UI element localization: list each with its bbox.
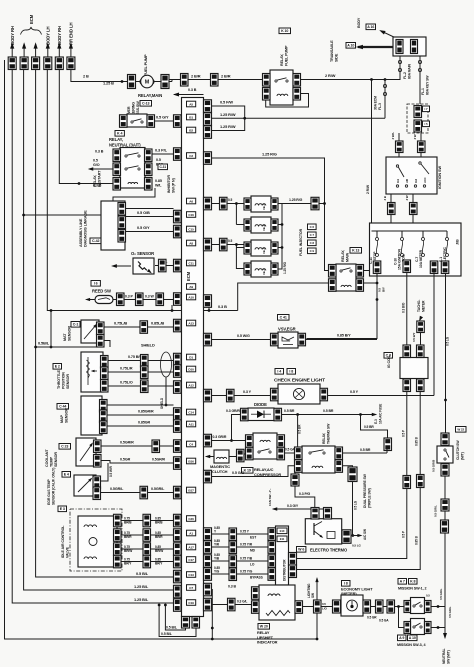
A16 label	[366, 24, 376, 30]
ECM right edge connector y158	[204, 152, 212, 165]
J/B label	[456, 239, 460, 245]
svg-text:0.85 B: 0.85 B	[415, 535, 419, 545]
relay neutral conn L1	[113, 149, 121, 162]
battery feed arrow	[356, 45, 393, 50]
MAT row1 mid connector	[140, 321, 148, 334]
relay main arrow label	[138, 88, 204, 98]
relay AC conn L2	[246, 447, 254, 460]
wire from harness 6 to fuel pump	[71, 70, 128, 82]
label 2 B	[83, 74, 89, 79]
reed sw name	[92, 289, 111, 294]
IG coil conn B1	[403, 379, 411, 392]
relay neutral K4 label	[115, 131, 124, 137]
relay fp conn R2	[293, 88, 301, 101]
MAP sensor labels	[57, 404, 69, 424]
ECM bottom loop a	[164, 604, 186, 630]
distributor row conn EST	[229, 528, 237, 541]
magnetic clutch conn	[237, 449, 245, 462]
connector on 2B/R wire b	[211, 74, 219, 87]
wire 0.3 Y	[212, 390, 271, 396]
svg-text:EST: EST	[250, 535, 256, 539]
wire 0.5 W/G	[212, 334, 271, 340]
idle air mid conn row2	[143, 529, 151, 542]
FL-2 80A MAIN	[385, 56, 412, 80]
wire MAP row2 0.85GR/R	[107, 410, 174, 416]
power steering sw connector right	[147, 115, 155, 128]
distributor row LO	[212, 553, 269, 567]
svg-text:I 5: I 5	[425, 122, 428, 126]
svg-text:(M/T): (M/T)	[461, 452, 465, 460]
body label	[357, 17, 361, 28]
transaxle side label	[330, 40, 339, 62]
svg-text:A 10: A 10	[409, 636, 416, 640]
coolant conn R2	[94, 455, 102, 468]
svg-text:INHIBITOR: INHIBITOR	[167, 175, 171, 193]
relay main conn R1	[356, 265, 364, 278]
wire idle air row1	[121, 516, 174, 524]
relay AC compressor box	[253, 433, 277, 459]
svg-text:0.5 BR: 0.5 BR	[298, 424, 302, 434]
VSV conn R	[298, 333, 306, 346]
svg-text:0.5 GR: 0.5 GR	[367, 616, 377, 620]
relay thermo conn R2	[335, 460, 343, 473]
injector No.1 conn L	[244, 198, 251, 210]
svg-text:C26: C26	[188, 517, 194, 521]
wire throttle row3	[108, 381, 174, 387]
IG coil conn T2	[417, 345, 425, 358]
svg-text:RELAY,: RELAY,	[322, 432, 326, 444]
injector No.4 conn L	[244, 263, 251, 275]
label 0.5GR/L b	[151, 487, 165, 491]
idle air mid conn row3	[143, 543, 151, 556]
reed conn c	[156, 293, 164, 306]
fuse 15A IGNITION COIL	[394, 238, 406, 271]
throttle sensor box	[81, 352, 103, 392]
svg-text:0.3 G/Y: 0.3 G/Y	[287, 504, 299, 508]
svg-text:0.75L/B: 0.75L/B	[114, 321, 127, 326]
svg-text:C-13: C-13	[142, 102, 149, 106]
wire linkage row1	[126, 208, 174, 210]
wire K12 to feed riser	[319, 202, 326, 205]
svg-text:BR/W: BR/W	[155, 549, 163, 553]
ECM right edge connector y119	[204, 113, 212, 126]
wire 0.5 Y	[328, 390, 435, 396]
svg-text:0.5 G/Y: 0.5 G/Y	[137, 225, 150, 230]
label 0.85 W/L	[155, 179, 162, 188]
MAP conn R3	[100, 421, 108, 434]
svg-text:BR/Y: BR/Y	[155, 562, 163, 566]
relay neutral conn R3	[145, 178, 153, 191]
svg-text:W 20: W 20	[260, 625, 268, 629]
ECM right edge connector y244.5	[204, 238, 212, 251]
svg-text:0.5 G/Y: 0.5 G/Y	[156, 115, 169, 120]
relay AC conn R1	[277, 435, 285, 448]
mission sw 1 box	[411, 598, 425, 614]
IG coil conn T1	[403, 345, 411, 358]
ECM left edge connector y216.5	[174, 210, 182, 223]
svg-text:VALVE: VALVE	[66, 546, 70, 558]
svg-text:C16: C16	[188, 213, 194, 217]
svg-text:2 R/W: 2 R/W	[325, 73, 336, 78]
electric fuse wire	[444, 274, 449, 434]
svg-text:0.5 P: 0.5 P	[402, 530, 406, 538]
key sw conn 1	[414, 106, 430, 118]
svg-text:A 7: A 7	[400, 580, 405, 584]
diode label	[254, 402, 267, 407]
ECM left edge connector y561.5	[174, 555, 182, 568]
EGR temp sensor labels	[47, 468, 71, 505]
relay upshift labels	[257, 624, 278, 645]
EGR temp sensor box	[74, 475, 96, 496]
svg-text:1.25 R/G: 1.25 R/G	[283, 261, 287, 274]
svg-text:1.25 R/W: 1.25 R/W	[220, 112, 236, 117]
idle air control outer box	[70, 509, 122, 571]
svg-text:SENSOR: SENSOR	[66, 374, 70, 389]
svg-text:ECM: ECM	[29, 14, 34, 24]
wire 2 R/W to fuse box	[366, 80, 372, 224]
svg-text:0.5 GR/B: 0.5 GR/B	[432, 459, 436, 472]
EGR row2 mid conn	[140, 486, 148, 499]
relay thermo conn L1	[295, 447, 303, 460]
svg-text:0.75L/R: 0.75L/R	[120, 367, 133, 371]
svg-text:0.3 B: 0.3 B	[218, 304, 227, 309]
injector return bus	[278, 204, 287, 275]
svg-text:3 W: 3 W	[405, 195, 409, 200]
fuse box bottom conn 2	[403, 260, 411, 273]
svg-text:0.5 GR/L: 0.5 GR/L	[439, 588, 443, 600]
svg-text:CLUTCH SW: CLUTCH SW	[456, 440, 460, 460]
fuel injector label column	[299, 224, 316, 256]
check engine mid conn	[227, 389, 235, 402]
fuel pump connector left	[128, 75, 136, 89]
svg-text:FL-2: FL-2	[403, 72, 407, 79]
injector mid conn 1	[220, 197, 228, 210]
svg-text:0.5 W/R: 0.5 W/R	[109, 465, 113, 477]
wire clutch to relay	[229, 454, 245, 457]
C9 connector	[291, 472, 299, 487]
svg-text:0.5 W/G: 0.5 W/G	[237, 334, 250, 338]
svg-text:BODY: BODY	[357, 17, 361, 28]
electro thermo conn T1	[311, 508, 319, 520]
svg-text:0.5: 0.5	[228, 198, 232, 202]
wire 15A stop down	[307, 274, 386, 339]
svg-text:K 8: K 8	[410, 580, 415, 584]
wire idle air row4	[121, 557, 174, 565]
magnetic clutch box	[214, 450, 229, 463]
svg-text:0.3 P/G: 0.3 P/G	[299, 492, 311, 496]
svg-text:C19: C19	[188, 601, 194, 605]
svg-text:MISSION SW‑3, 4: MISSION SW‑3, 4	[397, 643, 426, 647]
distributor row BYPASS	[212, 566, 269, 580]
ECM left edge connector y371	[174, 365, 182, 378]
wire2 branch to diagnosis linkage	[22, 214, 101, 217]
upshift conn L2	[252, 601, 260, 614]
reed switch	[95, 296, 113, 304]
svg-text:0.3 B: 0.3 B	[93, 184, 102, 188]
neutral sw wire	[439, 588, 452, 664]
svg-text:C 9: C 9	[310, 249, 315, 253]
FL-3 30A ECM	[374, 80, 387, 119]
svg-text:K 19: K 19	[244, 469, 251, 473]
label 2 B/R a	[191, 74, 201, 79]
shield drain wire	[160, 377, 167, 409]
svg-text:G/O: G/O	[93, 163, 100, 167]
shield label	[141, 343, 155, 348]
reed sw ground stub	[85, 298, 95, 301]
wire ECM to relay AC	[212, 440, 246, 442]
svg-text:C2: C2	[189, 154, 193, 158]
economy light meter box	[341, 595, 363, 616]
wire 0.3 P/L	[152, 148, 174, 155]
svg-text:0.75 Y/R: 0.75 Y/R	[240, 542, 253, 546]
connector on harness wire 3	[32, 57, 40, 70]
svg-text:W 22: W 22	[457, 428, 464, 432]
ignition wire mid connector 2	[417, 475, 425, 488]
label 0.5 B/W	[156, 158, 163, 167]
svg-text:1.25 B/L: 1.25 B/L	[134, 584, 149, 589]
label 0.5 B/L row	[136, 571, 149, 576]
relay fp conn L1	[263, 74, 271, 87]
reed sw I6 label	[91, 281, 100, 287]
relay fp conn L2	[263, 88, 271, 101]
wire MAT row2 to ground	[104, 341, 110, 348]
svg-text:ELECTRO THERMO: ELECTRO THERMO	[310, 548, 348, 553]
MAT conn R2	[97, 335, 105, 348]
ECM right edge connector y106	[204, 100, 212, 113]
O2 mid connector	[159, 259, 167, 272]
ECM right edge connector y547	[204, 541, 212, 554]
injector feed split 2	[235, 243, 244, 268]
svg-text:D10: D10	[188, 367, 194, 371]
svg-text:0.75 Y: 0.75 Y	[240, 529, 250, 533]
MAT conn R1	[97, 322, 105, 335]
dual pressure conn	[348, 467, 357, 482]
wire idle air row2	[121, 531, 174, 539]
relay thermo box	[302, 446, 335, 473]
wire MAT row1 0.75L/B	[104, 321, 174, 328]
svg-text:0.5GR: 0.5GR	[120, 458, 131, 462]
fuse 15A STOP	[369, 238, 379, 268]
wire 2 R/W	[301, 73, 387, 81]
svg-text:I 8: I 8	[344, 582, 348, 586]
svg-text:DIODE: DIODE	[254, 402, 267, 407]
svg-text:MAT: MAT	[63, 333, 67, 341]
fuel injector No.2 box	[251, 217, 271, 233]
ECM left edge connector y535	[174, 529, 182, 542]
distributor edge conn EST	[268, 528, 276, 541]
wire 0.5 BR diode out	[282, 409, 376, 416]
svg-text:E11: E11	[280, 537, 285, 541]
ignition sw box	[386, 157, 437, 194]
wire ECM to upshift relay	[212, 604, 252, 606]
idle air control inner box	[78, 516, 117, 567]
AC fuse branch	[361, 415, 392, 451]
ECM left edge connector y121	[174, 115, 182, 128]
O2 sensor box	[133, 258, 154, 275]
relay fuel pump box	[270, 70, 293, 105]
mission sw2 conn L	[404, 622, 411, 634]
label 0.5GR/R top	[152, 458, 165, 462]
svg-text:I 7: I 7	[425, 107, 428, 111]
svg-text:MISSION SW‑1, 2: MISSION SW‑1, 2	[398, 587, 426, 591]
ECM bottom connector a	[182, 617, 190, 629]
fuel pump label	[143, 54, 148, 76]
svg-text:TRANSAXLE: TRANSAXLE	[330, 40, 334, 62]
wire VSV right	[306, 339, 378, 341]
body branch arrow	[378, 28, 397, 38]
injector No.3 conn R	[271, 242, 278, 254]
svg-text:0.5 BR: 0.5 BR	[284, 409, 295, 413]
svg-text:SENSOR (CALIF. ONLY): SENSOR (CALIF. ONLY)	[52, 468, 56, 505]
svg-text:A 9: A 9	[399, 636, 404, 640]
upshift conn R1	[295, 601, 303, 614]
svg-text:0.5 O/B: 0.5 O/B	[137, 210, 150, 215]
throttle row3 mid conn	[141, 380, 149, 393]
wire 0.3 G/Y fan	[268, 488, 328, 518]
ECM left edge connector y605	[174, 599, 182, 612]
label 0.5 B/L b	[161, 632, 173, 636]
relay neutral conn L3	[113, 178, 121, 191]
svg-text:0.5 B/L: 0.5 B/L	[166, 626, 178, 630]
relay AC coil branch	[285, 415, 302, 454]
svg-text:A1: A1	[189, 531, 193, 535]
svg-text:2 R/W: 2 R/W	[366, 184, 370, 194]
wire ign coil down 0.3B/O	[402, 273, 407, 346]
ECM left edge connector y231.5	[174, 225, 182, 238]
idle air control labels	[58, 506, 70, 558]
svg-text:MAIN: MAIN	[346, 253, 350, 262]
svg-text:SHIELD: SHIELD	[141, 343, 155, 348]
ECM bottom loop b	[158, 604, 196, 637]
ECM left edge connector y265.5	[174, 259, 182, 272]
svg-text:TACHO-: TACHO-	[417, 300, 421, 312]
linkage conn R3	[118, 230, 126, 243]
svg-text:A8: A8	[189, 241, 193, 245]
svg-text:2 B/R: 2 B/R	[191, 74, 201, 79]
svg-text:BODY RH: BODY RH	[57, 26, 62, 45]
FL-1 80A KEY SW	[418, 56, 429, 104]
throttle row1 mid conn	[141, 355, 149, 368]
svg-text:A11: A11	[188, 422, 194, 426]
svg-text:Y/R: Y/R	[214, 542, 220, 546]
upshift conn L1	[252, 587, 260, 600]
A10 label	[346, 43, 356, 49]
svg-text:0.3 B: 0.3 B	[95, 150, 104, 154]
svg-text:K 10: K 10	[281, 29, 288, 33]
relay AC conn R2	[277, 447, 285, 460]
svg-text:I 6: I 6	[94, 282, 98, 286]
economy chain conn b	[387, 600, 395, 613]
distributor conn R1	[289, 553, 297, 566]
svg-text:0.5 BR: 0.5 BR	[360, 448, 371, 452]
fuel pump motor	[140, 75, 154, 88]
ECM right edge connector y589.5	[204, 583, 212, 596]
svg-text:VSV,EGR: VSV,EGR	[278, 327, 296, 332]
label 0.3 G/L	[237, 600, 247, 604]
fuse box bottom conn 3	[430, 261, 438, 274]
svg-text:LO: LO	[250, 562, 255, 566]
svg-text:0.5: 0.5	[228, 239, 232, 243]
injector No.3 conn L	[244, 242, 251, 254]
svg-text:0.75 Y/B: 0.75 Y/B	[240, 556, 253, 560]
mission sw2 out	[431, 626, 445, 629]
distributor edge conn LO	[268, 555, 276, 568]
C-13 label	[140, 101, 152, 107]
svg-text:DUAL PRESSURE SW: DUAL PRESSURE SW	[363, 473, 367, 508]
svg-text:W/L: W/L	[155, 184, 162, 188]
svg-text:K 4: K 4	[117, 132, 122, 136]
label 0.3 P	[125, 295, 133, 299]
svg-text:C17: C17	[188, 558, 194, 562]
injector No.4 conn R	[271, 263, 278, 275]
svg-text:Y/B: Y/B	[214, 556, 220, 560]
svg-text:MAP: MAP	[60, 414, 64, 423]
svg-text:0.5 B/L: 0.5 B/L	[136, 571, 149, 576]
label 0.85L/B	[151, 321, 164, 326]
label 0.5 G/O left	[93, 159, 100, 168]
wire into economy light	[321, 606, 333, 608]
IG coil conn B2	[417, 379, 425, 392]
svg-text:0.5: 0.5	[93, 159, 98, 163]
svg-text:BYPASS: BYPASS	[250, 575, 264, 579]
svg-text:0.5 P: 0.5 P	[402, 429, 406, 437]
svg-text:No.2: No.2	[262, 224, 266, 230]
ignition sw outputs	[383, 194, 417, 223]
idle air valve conn row2	[114, 529, 122, 542]
K12 connector	[311, 197, 319, 210]
svg-text:K 13: K 13	[352, 249, 359, 253]
O2 sensor ground arrow	[111, 264, 131, 268]
economy conn R	[363, 600, 371, 613]
svg-text:I 8: I 8	[289, 370, 293, 374]
svg-text:10A A/C FUSE: 10A A/C FUSE	[379, 404, 383, 424]
svg-text:BR/B: BR/B	[155, 521, 163, 525]
ECM injector wire 1	[212, 198, 245, 204]
relay main conn L2	[329, 279, 337, 292]
svg-text:80A MAIN: 80A MAIN	[408, 63, 412, 79]
svg-text:ACC: ACC	[423, 177, 427, 183]
lighting sw branch	[303, 577, 328, 613]
svg-text:BR/R: BR/R	[124, 535, 132, 539]
clutch sw conn B	[441, 464, 449, 477]
wire MAP row3 0.85GR	[107, 421, 174, 427]
svg-text:C 8: C 8	[310, 241, 315, 245]
ECM left edge connector y463	[174, 457, 182, 470]
svg-text:1.25 B/L: 1.25 B/L	[134, 597, 149, 602]
economy conn L	[333, 600, 341, 613]
ECM left edge connector y359.5	[174, 353, 182, 366]
ignition sw label	[438, 166, 442, 189]
svg-text:NEUTRAL (3A/T): NEUTRAL (3A/T)	[109, 143, 141, 148]
svg-text:SW: SW	[311, 593, 315, 598]
svg-text:IG2: IG2	[414, 178, 418, 183]
svg-text:0.5 LG: 0.5 LG	[354, 500, 358, 510]
check engine light box	[278, 384, 320, 404]
diode conn L	[241, 408, 249, 421]
ECM left edge connector y492.5	[174, 486, 182, 499]
ECM left edge connector y299	[174, 293, 182, 306]
check engine conn L	[271, 388, 279, 401]
relay upshift box	[259, 585, 295, 620]
wire O2 to ECM	[155, 265, 174, 267]
distributor edge conn MD	[268, 541, 276, 554]
wire throttle row1	[108, 355, 174, 361]
mission sw 3-4 labels	[397, 635, 426, 647]
svg-text:C-1: C-1	[73, 323, 79, 327]
svg-text:ECM: ECM	[186, 271, 191, 281]
svg-text:C7: C7	[189, 586, 193, 590]
svg-text:3 W: 3 W	[413, 134, 417, 139]
